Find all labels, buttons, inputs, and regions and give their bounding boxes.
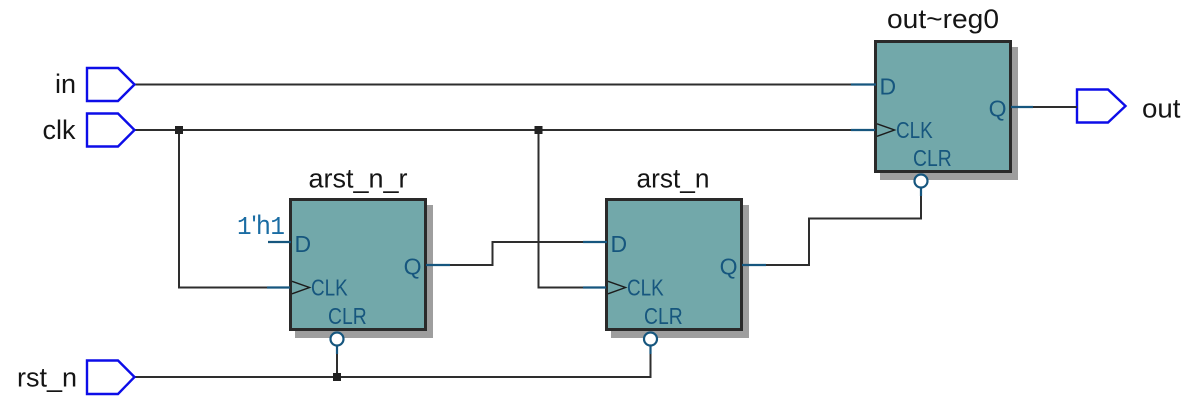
stub: below CLR bubble out~reg0 <box>920 188 922 197</box>
svg-text:CLR: CLR <box>328 303 367 329</box>
stub: Q of arst_n <box>742 264 766 266</box>
svg-text:rst_n: rst_n <box>17 362 77 392</box>
stub: below CLR bubble arst_n_r <box>336 346 338 355</box>
svg-text:1'h1: 1'h1 <box>237 210 285 242</box>
stub: D of out~reg0 <box>851 83 876 85</box>
CLR bubble out~reg0 <box>915 175 928 188</box>
flip-flop arst_n body <box>607 200 742 330</box>
svg-text:Q: Q <box>720 254 738 280</box>
wire: Q of arst_n to CLR bubble of out~reg0 <box>764 195 921 265</box>
input pin clk <box>87 114 135 147</box>
output pin out <box>1077 90 1126 123</box>
svg-text:CLK: CLK <box>896 117 933 143</box>
flip-flop out~reg0 body <box>876 42 1011 172</box>
svg-text:CLK: CLK <box>311 275 348 301</box>
junction on rst_n wire at x=337 <box>333 373 341 381</box>
wire: clk pin horizontal trunk <box>135 129 853 131</box>
wire: Q of out~reg0 to out pin <box>1033 106 1077 108</box>
CLR bubble arst_n <box>644 333 657 346</box>
wire: clk drop to CLK of arst_n_r <box>179 130 268 288</box>
svg-text:arst_n_r: arst_n_r <box>309 163 408 193</box>
stub: Q of out~reg0 <box>1011 106 1033 108</box>
svg-text:D: D <box>880 74 897 100</box>
clock triangle arst_n <box>608 281 626 294</box>
input pin in <box>87 68 135 101</box>
wire: rst_n pin to CLR bubbles <box>135 353 651 377</box>
wire: rst_n branch up to CLR of arst_n_r <box>336 353 338 377</box>
svg-text:CLR: CLR <box>644 303 683 329</box>
clock triangle out~reg0 <box>877 124 895 137</box>
flip-flop arst_n_r shadow <box>295 205 433 338</box>
flip-flop arst_n shadow <box>611 205 749 338</box>
svg-text:out: out <box>1142 93 1181 123</box>
svg-text:arst_n: arst_n <box>637 163 710 193</box>
stub: D of arst_n <box>583 241 607 243</box>
svg-text:D: D <box>611 231 628 257</box>
junction on clk trunk at x=179 <box>175 126 183 134</box>
stub: Q of arst_n_r <box>426 264 450 266</box>
clock triangle arst_n_r <box>292 281 310 294</box>
stub: below CLR bubble arst_n <box>649 346 651 355</box>
wire: Q of arst_n_r to D of arst_n <box>449 242 584 265</box>
flip-flop arst_n_r body <box>291 200 426 330</box>
stub: CLK of out~reg0 <box>851 129 875 131</box>
CLR bubble arst_n_r <box>331 333 344 346</box>
svg-text:CLR: CLR <box>913 145 952 171</box>
svg-text:Q: Q <box>404 254 422 280</box>
flip-flop out~reg0 shadow <box>880 47 1018 180</box>
stub: CLK of arst_n <box>583 286 606 288</box>
junction on clk trunk at x=538 <box>535 126 543 134</box>
wire: in pin to D of out~reg0 <box>135 84 853 86</box>
svg-text:out~reg0: out~reg0 <box>887 4 999 34</box>
svg-text:D: D <box>295 231 312 257</box>
svg-text:Q: Q <box>989 96 1007 122</box>
svg-text:clk: clk <box>43 115 76 145</box>
stub: CLK of arst_n_r <box>267 286 290 288</box>
svg-text:in: in <box>55 69 76 99</box>
stub: 1'h1 to D of arst_n_r <box>268 241 291 243</box>
svg-text:CLK: CLK <box>627 275 664 301</box>
input pin rst_n <box>87 361 135 395</box>
wire: clk drop to CLK of arst_n <box>539 130 585 288</box>
